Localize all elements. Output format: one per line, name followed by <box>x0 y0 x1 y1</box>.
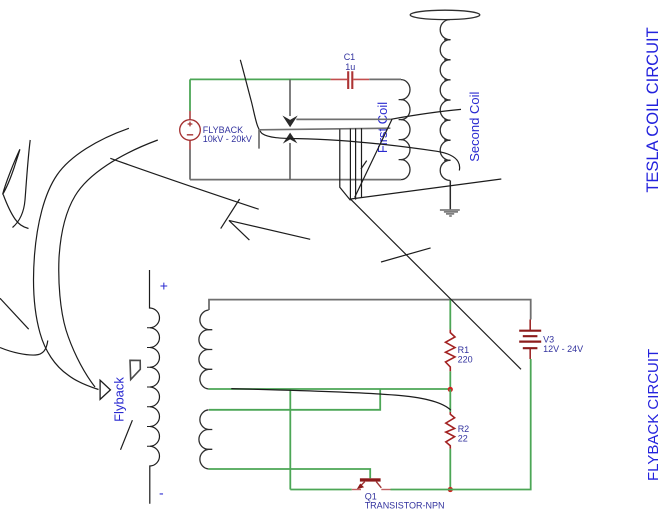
voltage source V FLYBACK <box>180 111 252 150</box>
flyback sketch coil <box>147 270 159 504</box>
svg-text:R2: R2 <box>458 424 470 434</box>
annotation arrow tail curve <box>0 341 48 356</box>
inductor second coil <box>440 20 450 181</box>
annotation big curved arrow outer <box>34 128 129 389</box>
svg-text:12V - 24V: 12V - 24V <box>543 344 583 354</box>
annotation line to right edge <box>351 179 502 199</box>
svg-text:TESLA COIL CIRCUIT: TESLA COIL CIRCUIT <box>644 27 662 192</box>
annotation hairpin loop <box>3 140 31 229</box>
topload ellipse <box>410 10 480 19</box>
wire: feedback top connection <box>209 389 380 410</box>
wire: flyback circuit top rail <box>209 300 531 320</box>
spark gap (two arrows) <box>282 79 297 179</box>
annotation pointer to second coil <box>391 109 461 119</box>
capacitor C1 <box>331 52 370 89</box>
battery V3 <box>519 320 583 360</box>
annotation steep line <box>355 119 392 197</box>
svg-text:10kV - 20kV: 10kV - 20kV <box>203 134 252 144</box>
svg-text:Flyback: Flyback <box>112 377 127 422</box>
annotation diagonal slash <box>381 248 431 262</box>
resistor R1 <box>446 300 473 389</box>
svg-text:22: 22 <box>458 434 468 444</box>
svg-text:TRANSISTOR-NPN: TRANSISTOR-NPN <box>365 501 445 511</box>
annotation line B with stub <box>259 128 390 148</box>
svg-text:220: 220 <box>458 354 473 364</box>
transistor Q1 <box>352 478 445 510</box>
annotation ladder lines <box>340 128 367 200</box>
annotation arrow head segments <box>229 220 310 240</box>
wire: top rail dark to first coil <box>369 78 401 80</box>
inductor first coil <box>399 80 410 180</box>
wire: green vertical left <box>289 389 291 490</box>
inductor driver primary <box>199 310 212 389</box>
wire: collector node green horizontal <box>209 388 451 390</box>
wire: bottom rail green <box>290 359 530 490</box>
annotation slash under flyback label <box>121 420 133 450</box>
annotation arrow slash <box>221 199 240 229</box>
ground <box>440 180 460 216</box>
svg-text:C1: C1 <box>344 52 356 62</box>
wire: source bottom <box>189 150 191 180</box>
svg-text:-: - <box>159 485 164 501</box>
junction dot emitter node <box>448 487 453 492</box>
svg-text:FLYBACK CIRCUIT: FLYBACK CIRCUIT <box>645 349 662 481</box>
svg-text:R1: R1 <box>458 345 470 355</box>
svg-text:1u: 1u <box>345 62 355 72</box>
wire: top rail green (source to C1) <box>190 79 331 111</box>
annotation short line left <box>0 298 29 329</box>
annotation arrowhead open triangle <box>100 380 110 399</box>
annotation arrow at source area shaft <box>110 158 258 209</box>
annotation flag pentagon <box>130 360 140 379</box>
resistor R2 <box>446 389 469 490</box>
svg-text:Second Coil: Second Coil <box>467 92 482 162</box>
annotation big curved arrow inner <box>59 140 158 387</box>
annotation line A from gap <box>296 118 391 120</box>
inductor feedback coil <box>199 410 212 469</box>
svg-text:V3: V3 <box>543 334 554 344</box>
wire: base wire green <box>209 469 371 478</box>
svg-text:+: + <box>160 278 168 294</box>
annotation curve to spark gap and second coil <box>240 60 459 171</box>
annotation long diagonal to flyback circuit <box>351 200 521 370</box>
wire: bottom rail of tesla circuit <box>190 179 401 181</box>
annotation curve over collector wire <box>231 389 450 411</box>
junction dot collector node <box>448 387 453 392</box>
